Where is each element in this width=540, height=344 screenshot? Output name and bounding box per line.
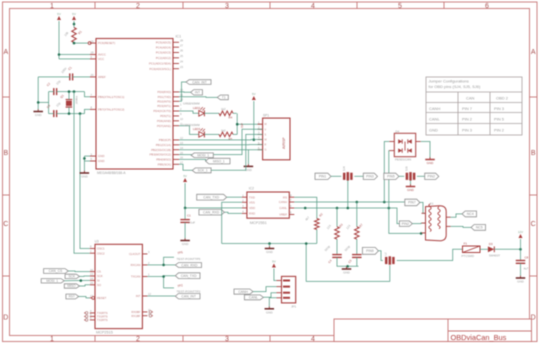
wire PB4 MISO (179, 159, 206, 161)
wire F1 to D3 (480, 248, 488, 250)
junction AVCC (58, 53, 61, 56)
IC3 RXnBF jumper stubs (149, 311, 153, 317)
svg-text:R: R (265, 144, 267, 147)
solder jumper SJ4 (342, 166, 351, 181)
svg-text:560p: 560p (344, 244, 351, 252)
jumper configuration table (426, 77, 522, 135)
svg-text:IC1: IC1 (176, 35, 182, 39)
wire PB0 to ISP (179, 139, 263, 141)
LED2 GREEN3MM (183, 102, 205, 117)
svg-text:10: 10 (180, 117, 183, 121)
junction CANH b (383, 201, 386, 204)
net flag PIN2 (jumper row) (425, 173, 439, 179)
svg-text:PIN 2: PIN 2 (494, 127, 505, 132)
net flag CAN_RXD (199, 209, 225, 215)
filter L2 (384, 252, 394, 265)
net flag PIN9 (362, 247, 378, 254)
svg-text:Jumper Configurations: Jumper Configurations (429, 79, 469, 84)
svg-text:B: B (3, 150, 8, 157)
svg-text:TXD: TXD (249, 195, 255, 199)
svg-text:PIN1: PIN1 (319, 175, 327, 179)
svg-text:MCP2515: MCP2515 (96, 330, 113, 334)
svg-text:RST: RST (69, 295, 75, 299)
svg-text:PIN 7: PIN 7 (462, 106, 473, 111)
svg-text:PIN 5: PIN 5 (494, 116, 505, 121)
svg-text:PC4(ADC4): PC4(ADC4) (156, 45, 171, 49)
wire 5V to ISP (253, 101, 255, 140)
svg-text:OBD 2: OBD 2 (496, 96, 509, 101)
svg-text:CAN_TXD: CAN_TXD (203, 195, 219, 199)
junction VDD (184, 207, 187, 210)
svg-text:MEGA48/88/168-A: MEGA48/88/168-A (97, 171, 126, 175)
junction R1 top (73, 23, 76, 26)
svg-text:RS: RS (283, 195, 287, 199)
svg-text:PIN9: PIN9 (366, 249, 374, 253)
svg-text:R7: R7 (358, 222, 364, 228)
MCU IC1 right pins (149, 39, 183, 167)
svg-text:2: 2 (136, 3, 140, 10)
svg-text:5V: 5V (183, 174, 187, 178)
wire 5V to R1 (73, 21, 75, 28)
ground GND (C8) (516, 276, 526, 284)
net flag CAN_INT (MCU) (186, 80, 211, 85)
resistor R7 124 (345, 222, 364, 239)
net flag PIN1 (jumper row) (315, 173, 331, 179)
wire CANH to JP1 (253, 287, 277, 292)
capacitor C8 4.7uF (516, 249, 529, 277)
svg-text:13: 13 (180, 141, 183, 145)
X1 contacts (429, 204, 440, 232)
svg-text:TP2: TP2 (177, 283, 183, 288)
wire CAN_CS to CS (68, 270, 90, 273)
ground GND (crystal) (33, 109, 43, 117)
net flag RST (66, 294, 79, 299)
junction XTAL1 osc feed (73, 90, 76, 93)
svg-text:RESET: RESET (97, 296, 107, 300)
junction SI (80, 279, 83, 282)
svg-text:GND: GND (35, 113, 43, 117)
wire crystal ground rail (38, 92, 48, 114)
wire INT to PD0 (179, 91, 191, 93)
reset pin bubble (88, 42, 91, 45)
svg-text:L2: L2 (384, 252, 388, 255)
svg-text:17: 17 (180, 161, 183, 165)
net flag MOSI_1 (191, 153, 213, 158)
svg-text:25: 25 (180, 54, 183, 58)
svg-text:S: S (265, 133, 267, 136)
svg-text:PIN 3: PIN 3 (462, 127, 473, 132)
svg-text:SJ5: SJ5 (405, 166, 409, 171)
junction SJ4 CANL (347, 207, 350, 210)
wire T1 to PD1 (179, 96, 217, 99)
net flag CAN_RXD (2515) (175, 263, 201, 268)
net flag T1 (217, 95, 228, 100)
wire CAN_INT to PD2 (179, 82, 186, 101)
junction CANH a (356, 201, 359, 204)
junction 12V node (519, 248, 522, 251)
ground GND (C7) (180, 238, 190, 246)
svg-text:SJ4: SJ4 (342, 166, 346, 171)
svg-text:PC3(ADC3): PC3(ADC3) (156, 51, 171, 55)
wire PIN2 to DB9 (412, 222, 425, 225)
MCU IC1 MEGA48/88/168-A body (96, 35, 181, 175)
test point TP2 label (177, 283, 201, 293)
wire PD7 to LED3 (179, 126, 199, 135)
wire gnd rail (222, 243, 317, 245)
svg-text:R4: R4 (229, 116, 233, 120)
net flag PIN2 (CANL) (399, 221, 412, 227)
svg-text:F1: F1 (464, 242, 468, 246)
svg-text:PB1(OC1A): PB1(OC1A) (156, 143, 171, 147)
net flag PIN7 (CANH) (405, 199, 420, 206)
svg-text:SCK_1: SCK_1 (198, 169, 208, 173)
svg-text:CANL: CANL (429, 116, 440, 121)
wire RS to R2 (294, 197, 317, 218)
wire PD4 to LED2 (179, 111, 199, 113)
svg-text:PIN2: PIN2 (427, 175, 435, 179)
svg-text:D3: D3 (489, 242, 493, 246)
title block (334, 319, 532, 342)
svg-text:A: A (531, 49, 536, 56)
svg-text:M: M (265, 139, 267, 142)
junction DB9 pin feed (420, 232, 423, 235)
net flag NC4 (462, 211, 477, 217)
wire 5V to VDD (185, 183, 242, 208)
svg-text:4: 4 (311, 3, 315, 10)
wire XTAL2 net (49, 107, 90, 114)
svg-text:PIN 3: PIN 3 (494, 106, 505, 111)
svg-text:PIN7: PIN7 (408, 201, 416, 205)
wire C5 to gnd (356, 257, 358, 266)
wire crystal to MCP2515 OSC2 (74, 92, 90, 254)
svg-text:CANH: CANH (279, 200, 287, 204)
CAN controller IC3 MCP2515 body (95, 240, 143, 335)
diode D3 SM4007 (488, 242, 501, 257)
LED3 GREEN3MM (183, 123, 205, 137)
svg-text:SCK: SCK (97, 274, 103, 278)
svg-text:X1: X1 (430, 202, 434, 206)
svg-text:PIN 2: PIN 2 (462, 116, 473, 121)
svg-text:GND: GND (245, 168, 253, 172)
svg-text:R2: R2 (318, 212, 324, 218)
wire SCK_1 jog (179, 164, 192, 170)
svg-text:PB6(XTAL1/TOSC1): PB6(XTAL1/TOSC1) (98, 95, 124, 99)
svg-text:GND: GND (429, 127, 438, 132)
net flag CAN_TXD (197, 194, 227, 200)
wire 5V to JP1 pin1 (274, 269, 277, 281)
svg-text:OSC1: OSC1 (97, 247, 105, 251)
svg-text:CAN_RXD: CAN_RXD (181, 263, 198, 267)
wire LED3 to R5 (204, 133, 219, 135)
svg-text:AVCC: AVCC (98, 53, 106, 57)
svg-text:MISO: MISO (67, 284, 76, 288)
svg-text:PC5(ADC5): PC5(ADC5) (156, 40, 171, 44)
svg-text:CAN_INT: CAN_INT (192, 80, 207, 84)
svg-text:V: V (265, 128, 267, 131)
resistor R4 1k2 (219, 107, 233, 119)
svg-text:PB4(MISO): PB4(MISO) (156, 158, 171, 162)
svg-text:PB5(SCK): PB5(SCK) (158, 162, 171, 166)
wire R2 to gnd rail (316, 230, 318, 244)
ISP header pins (258, 120, 267, 151)
wire MISO to SO (80, 285, 90, 286)
svg-text:9: 9 (180, 112, 182, 116)
solder jumper SJ5 (405, 166, 415, 181)
resistor R2 4k7 (304, 212, 324, 230)
wire SCK to pin (80, 275, 90, 277)
svg-text:CANL: CANL (249, 296, 258, 300)
svg-text:2: 2 (136, 336, 140, 343)
wire X1 to NC4 (451, 214, 463, 217)
wire D4 pin1 to CANH (384, 142, 389, 203)
svg-text:GND: GND (182, 242, 190, 246)
power symbol 5V (MCP2551) (183, 174, 187, 182)
junction L2 gnd at rail (305, 242, 308, 245)
junction gnd rail (37, 101, 40, 104)
svg-text:TX2RTS: TX2RTS (97, 318, 108, 322)
svg-text:SCK: SCK (69, 275, 76, 279)
junction XTAL2 crystal (68, 112, 71, 115)
svg-text:CLKOUT: CLKOUT (129, 252, 141, 256)
X1 pins (422, 213, 451, 233)
wire SJ4 to CANL (347, 181, 349, 209)
wire XTAL1 net (49, 92, 90, 100)
wire PB1 to ISP (179, 144, 263, 146)
svg-text:ISP: ISP (240, 123, 244, 128)
svg-text:VREF: VREF (279, 213, 287, 217)
wire L2 to fuse (397, 249, 463, 260)
wire R1 to RESET pin (74, 42, 88, 45)
net flag PIN5 (jumper row) (384, 173, 399, 179)
net flag CAN_CS (44, 269, 69, 274)
svg-text:PB3(MOSI/OC2): PB3(MOSI/OC2) (149, 153, 171, 157)
svg-text:C3: C3 (46, 103, 52, 109)
svg-text:10k: 10k (63, 30, 69, 37)
svg-text:R1: R1 (77, 29, 83, 35)
svg-text:2: 2 (148, 261, 150, 265)
wire L2 shield to gnd rail (306, 244, 390, 282)
net flag CANL (JP1) (244, 295, 263, 300)
svg-text:4k7: 4k7 (304, 215, 310, 221)
svg-text:15: 15 (180, 151, 183, 155)
wire MOSI to SI (64, 279, 90, 281)
svg-text:PD6(AIN0): PD6(AIN0) (157, 119, 171, 123)
net flag INT (191, 90, 203, 95)
svg-text:14: 14 (180, 146, 183, 150)
svg-text:PD3(INT1): PD3(INT1) (157, 104, 171, 108)
ground GND (D4) (425, 157, 435, 165)
crystal Q1 20MHz (59, 93, 78, 107)
svg-text:5V: 5V (57, 12, 61, 16)
svg-text:PIN2: PIN2 (402, 222, 410, 226)
ground GND (MCU) (80, 171, 90, 179)
svg-text:24: 24 (180, 60, 183, 64)
svg-text:1k2: 1k2 (221, 128, 226, 132)
svg-text:B: B (531, 150, 536, 157)
svg-text:GND: GND (81, 175, 89, 179)
connector X1 DB9 body (426, 202, 447, 241)
svg-text:TP5: TP5 (177, 250, 183, 255)
svg-text:PIN5: PIN5 (387, 175, 395, 179)
capacitor C3 22p (46, 101, 62, 117)
wire 5V to AVCC/VCC (59, 21, 90, 59)
svg-text:C5: C5 (347, 258, 353, 264)
svg-text:AREF: AREF (98, 75, 106, 79)
svg-text:AVRISP: AVRISP (282, 138, 286, 149)
svg-text:D4: D4 (395, 129, 399, 133)
header JP1 body (282, 276, 297, 308)
wire D4 gnd (421, 142, 430, 159)
svg-text:5V: 5V (252, 92, 256, 96)
svg-text:MOSI_1: MOSI_1 (197, 153, 209, 157)
wire SJ5 to PIN2 (417, 175, 425, 177)
svg-text:1: 1 (50, 3, 54, 10)
svg-text:5V: 5V (272, 259, 276, 263)
svg-text:CANH: CANH (429, 106, 440, 111)
resistor R5 1k2 (219, 128, 233, 140)
svg-text:6: 6 (485, 3, 489, 10)
svg-text:3: 3 (225, 336, 229, 343)
wire RST to RESET (79, 297, 90, 298)
capacitor C4 560p (324, 244, 342, 264)
net flag MISO_1 (2515) (64, 284, 79, 288)
junction LED rail (236, 123, 239, 126)
svg-text:22p: 22p (55, 101, 61, 108)
ground GND (termination) (342, 266, 352, 274)
svg-text:GND: GND (517, 280, 525, 284)
svg-text:OSC2: OSC2 (97, 251, 105, 255)
svg-text:22p: 22p (55, 79, 61, 86)
capacitor C5 560p (344, 244, 362, 264)
svg-text:T1: T1 (222, 96, 226, 100)
svg-text:124: 124 (345, 224, 351, 231)
ISP header SP1 body (240, 114, 290, 160)
svg-text:PC2(ADC2): PC2(ADC2) (156, 56, 171, 60)
power symbol 12V (518, 230, 523, 250)
svg-text:CAN_TXD: CAN_TXD (181, 274, 197, 278)
svg-text:MOSI_1: MOSI_1 (46, 279, 58, 283)
wire PB3 MOSI to ISP (179, 129, 263, 154)
wire PB2 to ISP (179, 149, 263, 151)
capacitor C7 0.1uF (180, 208, 195, 240)
wire PIN5 to SJ5 (399, 175, 404, 177)
wire AREF net (38, 77, 90, 103)
svg-text:VCC: VCC (98, 57, 104, 61)
svg-text:GREEN3MM: GREEN3MM (183, 102, 200, 106)
svg-text:1: 1 (148, 273, 150, 277)
svg-text:1: 1 (180, 102, 182, 106)
wire TXCAN net (147, 276, 175, 288)
ground GND (JP1) (265, 307, 275, 315)
svg-text:M: M (265, 123, 267, 126)
IC2 pins (242, 193, 294, 216)
svg-text:26: 26 (180, 49, 183, 53)
svg-text:SO: SO (97, 283, 102, 287)
svg-text:PD4(XCK/T0): PD4(XCK/T0) (153, 109, 171, 113)
svg-text:C: C (3, 221, 8, 228)
power symbol 5V (ISP) (252, 92, 256, 100)
junction TXCAN (162, 275, 165, 278)
wire RXCAN net (147, 257, 175, 265)
svg-text:INT: INT (195, 90, 200, 94)
ground GND (SJ5) (406, 184, 416, 192)
svg-text:LED3: LED3 (193, 127, 201, 131)
svg-text:5: 5 (398, 3, 402, 10)
junction CANL b (336, 207, 339, 210)
wire C4 to gnd (337, 257, 359, 266)
svg-text:PC0(ADC0/SCL): PC0(ADC0/SCL) (149, 67, 171, 71)
junction CANL c (388, 207, 391, 210)
svg-text:GND: GND (343, 271, 351, 275)
svg-text:VDD: VDD (249, 206, 255, 210)
svg-text:IC2: IC2 (249, 187, 254, 191)
svg-text:PD2(INT0): PD2(INT0) (157, 99, 171, 103)
svg-text:C8: C8 (525, 256, 529, 260)
wire SCK_1 to ISP pin3 (211, 134, 263, 170)
IC3 TXnRTS jumper stubs (84, 312, 88, 322)
svg-text:12: 12 (148, 292, 151, 296)
wire CANH to R7 (356, 202, 358, 227)
svg-text:JP1: JP1 (291, 304, 297, 308)
wire JP1 pin4 to gnd (269, 298, 276, 308)
svg-text:GND: GND (98, 159, 104, 163)
svg-text:PD0(RXD): PD0(RXD) (157, 90, 171, 94)
junction CANL a (304, 207, 307, 210)
svg-text:INT: INT (136, 294, 141, 298)
svg-text:CANL: CANL (279, 206, 287, 210)
svg-text:PC6(RESET): PC6(RESET) (98, 41, 115, 45)
svg-text:VSS: VSS (249, 200, 255, 204)
svg-text:11: 11 (148, 308, 151, 312)
test point TP5 label (177, 250, 201, 261)
svg-text:CANH: CANH (238, 290, 248, 294)
wire PIN7 to DB9 (420, 202, 426, 213)
net flag MOSI_1 (2515) (41, 279, 64, 283)
wire R5 to LED rail (233, 133, 237, 135)
svg-text:CAN: CAN (466, 96, 475, 101)
net flag SCK_1 (2515) (65, 274, 79, 278)
IC3 left pins (90, 245, 108, 322)
junction XTAL2 osc feed (79, 112, 82, 115)
net flag PIN3 (jumper row) (363, 173, 377, 179)
wire PIN9 to L2 (378, 251, 383, 261)
svg-text:C1: C1 (67, 65, 73, 71)
svg-text:NC5: NC5 (476, 226, 483, 230)
net flag CAN_TXD (2515) (175, 273, 200, 279)
svg-text:C2: C2 (46, 81, 52, 87)
wire CANL to R3 (336, 208, 338, 227)
junction RXCAN (162, 264, 165, 267)
wire X1 to NC5 (451, 226, 472, 227)
svg-text:SP1: SP1 (263, 114, 269, 118)
svg-text:1k2: 1k2 (221, 107, 226, 111)
svg-text:U3: U3 (95, 240, 99, 244)
junction gnd rail (268, 242, 271, 245)
ESD protection D4 PESD1CAN body (394, 129, 415, 161)
svg-text:RXCAN: RXCAN (131, 263, 141, 267)
power symbol 5V (P1) (57, 12, 61, 20)
wire CANH net (294, 201, 405, 203)
svg-text:SI: SI (97, 279, 100, 283)
svg-text:A: A (3, 49, 8, 56)
svg-text:TEST-POINTTP5: TEST-POINTTP5 (177, 257, 201, 261)
svg-text:5V: 5V (72, 12, 76, 16)
svg-text:OBDviaCan_Bus: OBDviaCan_Bus (451, 333, 507, 342)
svg-text:PD7(AIN1): PD7(AIN1) (157, 124, 171, 128)
net flag SCK_1 (192, 168, 211, 173)
svg-text:R3: R3 (338, 222, 344, 228)
svg-text:0.1uF: 0.1uF (188, 221, 196, 225)
